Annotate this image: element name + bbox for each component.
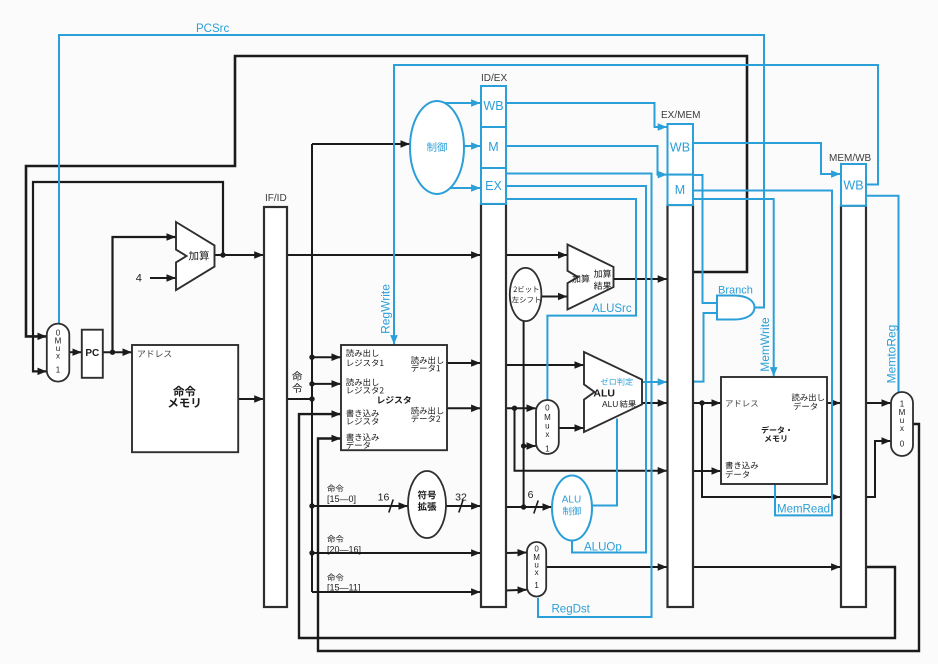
svg-text:WB: WB	[483, 99, 503, 113]
svg-text:1: 1	[56, 366, 61, 375]
svg-text:[15—0]: [15—0]	[327, 494, 356, 504]
svg-text:M: M	[488, 140, 498, 154]
svg-text:Branch: Branch	[718, 285, 753, 297]
svg-text:MemtoReg: MemtoReg	[885, 325, 899, 384]
svg-text:ALU: ALU	[562, 495, 581, 506]
svg-text:EX: EX	[485, 179, 502, 193]
svg-text:[15—11]: [15—11]	[327, 583, 360, 593]
svg-text:4: 4	[136, 273, 142, 285]
svg-text:x: x	[900, 424, 904, 433]
svg-text:ALUSrc: ALUSrc	[592, 303, 632, 315]
svg-text:EX/MEM: EX/MEM	[661, 110, 700, 121]
svg-text:IF/ID: IF/ID	[265, 193, 287, 204]
svg-text:WB: WB	[670, 141, 690, 155]
svg-text:ALU: ALU	[593, 388, 615, 400]
svg-text:1: 1	[545, 445, 550, 454]
svg-text:x: x	[545, 430, 549, 439]
svg-text:6: 6	[528, 489, 534, 501]
svg-text:32: 32	[455, 492, 467, 504]
svg-text:MemRead: MemRead	[777, 504, 830, 516]
svg-text:ID/EX: ID/EX	[481, 73, 507, 84]
svg-text:PCSrc: PCSrc	[196, 23, 229, 35]
svg-text:MemWrite: MemWrite	[758, 317, 772, 372]
svg-text:ALUOp: ALUOp	[584, 542, 622, 554]
svg-text:16: 16	[378, 492, 390, 504]
svg-text:x: x	[56, 352, 60, 361]
svg-text:RegDst: RegDst	[552, 604, 591, 616]
svg-text:RegWrite: RegWrite	[379, 284, 393, 334]
svg-text:ALU: ALU	[602, 399, 618, 409]
svg-text:PC: PC	[85, 348, 99, 359]
svg-text:0: 0	[900, 440, 905, 449]
svg-text:[20—16]: [20—16]	[327, 545, 361, 555]
svg-text:1: 1	[534, 581, 539, 590]
svg-text:0: 0	[545, 404, 550, 413]
svg-text:M: M	[675, 183, 685, 197]
svg-text:x: x	[535, 568, 539, 577]
svg-text:WB: WB	[843, 179, 863, 193]
svg-text:MEM/WB: MEM/WB	[829, 153, 872, 164]
